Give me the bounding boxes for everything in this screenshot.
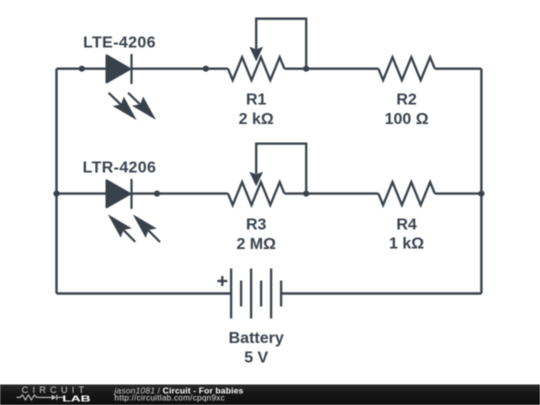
LED D1 LTE-4206	[107, 54, 154, 117]
wire left vertical	[55, 69, 57, 294]
resistor R4 zigzag	[378, 182, 434, 205]
svg-text:2 kΩ: 2 kΩ	[239, 111, 274, 128]
wire top row R2 to right corner	[435, 67, 482, 69]
svg-text:http://circuitlab.com/cpqn9xc: http://circuitlab.com/cpqn9xc	[114, 394, 225, 403]
node dot mid B	[154, 191, 160, 197]
wire top row R1 to R2	[284, 67, 378, 69]
potentiometer R1 wiper arrow	[250, 48, 262, 61]
svg-text:2 MΩ: 2 MΩ	[236, 236, 276, 253]
node dot top B	[203, 66, 209, 72]
wire top row LED to R1	[132, 67, 229, 69]
node dot top C	[303, 66, 309, 72]
potentiometer R1 zigzag	[228, 57, 284, 80]
svg-text:LTE-4206: LTE-4206	[83, 35, 156, 52]
node dot mid A	[53, 191, 59, 197]
svg-text:5 V: 5 V	[244, 350, 268, 367]
potentiometer R3 wiper arrow	[250, 173, 262, 186]
svg-text:100 Ω: 100 Ω	[385, 111, 429, 128]
svg-text:Battery: Battery	[229, 330, 284, 347]
wire middle row R3 to R4	[284, 192, 378, 194]
wire bottom right segment	[281, 292, 481, 294]
wire bottom left segment	[57, 292, 232, 294]
svg-text:1 kΩ: 1 kΩ	[389, 236, 424, 253]
node dot top A	[79, 66, 85, 72]
svg-text:R1: R1	[246, 91, 267, 108]
photodiode D2 LTR-4206	[107, 179, 160, 242]
potentiometer R3 zigzag	[228, 182, 284, 205]
wire middle row left segment	[57, 192, 107, 194]
logo schematic	[17, 395, 64, 400]
wire right vertical	[480, 69, 482, 294]
svg-text:R4: R4	[396, 217, 417, 234]
svg-text:R2: R2	[396, 91, 417, 108]
svg-text:LAB: LAB	[62, 394, 91, 403]
wire middle row R4 to right	[435, 192, 482, 194]
potentiometer R1 wiper loop	[256, 19, 306, 69]
svg-text:LTR-4206: LTR-4206	[83, 160, 157, 177]
potentiometer R3 wiper loop	[256, 144, 306, 194]
svg-text:R3: R3	[246, 217, 267, 234]
wire top row left segment	[57, 67, 107, 69]
battery V1	[231, 269, 281, 319]
node dot mid D	[478, 191, 484, 197]
battery plus sign	[217, 276, 227, 286]
wire middle row LTR to R3	[132, 192, 229, 194]
resistor R2 zigzag	[378, 57, 434, 80]
node dot mid C	[303, 191, 309, 197]
footer bar	[0, 385, 540, 405]
